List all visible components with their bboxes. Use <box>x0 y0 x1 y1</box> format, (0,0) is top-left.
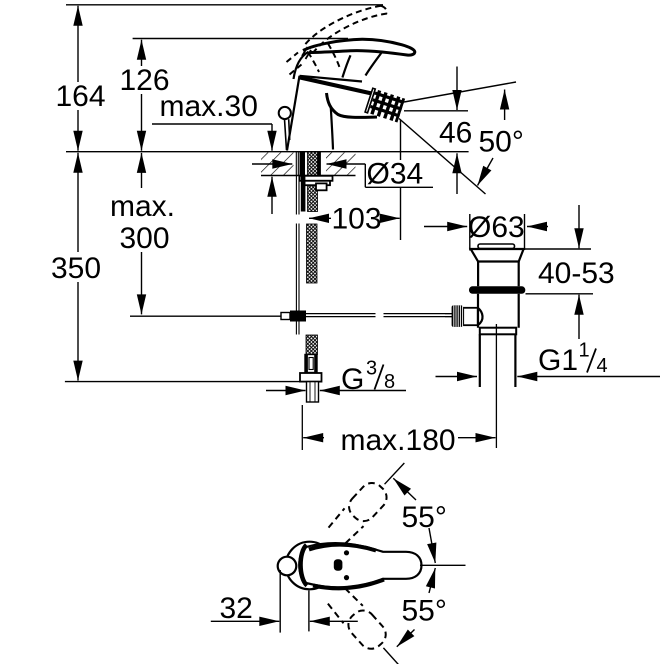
svg-text:4: 4 <box>597 355 608 377</box>
svg-text:max.30: max.30 <box>160 90 258 123</box>
svg-text:8: 8 <box>384 371 395 393</box>
dimension Ø63 <box>469 214 471 251</box>
hose end reference line <box>65 381 322 383</box>
max.300 bottom reference / pop-up rod line <box>130 315 281 317</box>
svg-text:Ø34: Ø34 <box>367 158 424 191</box>
flange <box>471 249 524 262</box>
G1 1/4 arrows <box>436 376 478 378</box>
dimension max.180 <box>303 437 324 439</box>
hose end fitting <box>305 355 317 373</box>
side port curve <box>478 308 483 325</box>
svg-text:164: 164 <box>56 80 106 113</box>
hose end: braid <box>306 335 318 355</box>
svg-text:55°: 55° <box>402 501 447 534</box>
lever logo <box>334 559 343 571</box>
faucet centreline lower <box>301 405 303 450</box>
reference line top (spout max height) <box>66 4 383 6</box>
svg-text:350: 350 <box>51 252 101 285</box>
lever neck left edge <box>342 55 350 77</box>
55deg lower leader arrows <box>397 630 415 647</box>
deck bottom line <box>261 175 356 177</box>
spout direction line lower <box>399 119 486 195</box>
spout direction line horizontal <box>404 110 468 112</box>
dimension 164 <box>77 6 79 82</box>
dimension max.30 <box>152 123 272 125</box>
tailpipe <box>480 334 516 387</box>
svg-text:Ø63: Ø63 <box>468 211 525 244</box>
faucet body side view <box>279 39 415 150</box>
top view: pop-up knob <box>278 557 297 576</box>
svg-text:46: 46 <box>439 117 472 150</box>
dimension 50deg <box>504 90 506 121</box>
lever dots <box>344 550 349 555</box>
aerator knurl <box>365 88 405 122</box>
svg-text:max.: max. <box>110 190 175 223</box>
reference line lever top <box>133 38 348 40</box>
dimension 350 <box>77 153 79 252</box>
cap joint thick band / spout top <box>300 78 379 96</box>
G3/8 arrows <box>266 390 306 392</box>
dimension 32 <box>279 570 281 633</box>
neck <box>478 262 519 287</box>
top view: dashed lever up position <box>327 454 415 545</box>
lever rear tail <box>294 52 309 79</box>
dimension max.300 <box>141 153 143 188</box>
55deg upper leader arrows <box>393 478 416 500</box>
lever bottom crescent <box>313 580 384 589</box>
tail flange <box>480 328 516 335</box>
mounting surface line <box>66 151 469 153</box>
pop-up rod horizontal <box>306 313 376 315</box>
dashed lever raised position <box>287 6 388 75</box>
mounting nut <box>300 176 333 190</box>
deck cross-section hatch left <box>261 153 294 176</box>
svg-text:103: 103 <box>332 203 382 236</box>
cap top thin edge <box>300 76 363 82</box>
top view: dashed lever down position <box>326 587 413 664</box>
pop-up knob <box>279 107 291 119</box>
dimension 46 <box>456 67 458 111</box>
top view: lever <box>299 543 421 587</box>
svg-text:300: 300 <box>120 222 170 255</box>
deck cross-section hatch right <box>326 153 356 176</box>
knurled knob <box>452 305 464 327</box>
faucet shank below deck <box>296 152 321 212</box>
svg-text:50°: 50° <box>479 126 524 159</box>
lever rear crescent <box>301 545 307 586</box>
spout direction line upper <box>404 82 516 102</box>
lever centreline <box>420 564 466 566</box>
top view: body circle <box>286 542 334 590</box>
svg-text:40-53: 40-53 <box>538 257 615 290</box>
lever neck right edge <box>366 52 383 76</box>
svg-text:1: 1 <box>579 340 590 362</box>
svg-text:32: 32 <box>220 592 253 625</box>
body right edge <box>331 108 333 150</box>
dimension 126 <box>141 40 143 66</box>
rod into knob <box>445 313 452 315</box>
hose nut G3/8 <box>300 373 322 382</box>
hose thin lines <box>296 176 299 335</box>
Ø34 leader and label <box>365 164 433 187</box>
solid lever <box>303 39 415 55</box>
port housing <box>463 308 478 325</box>
body below O-ring <box>478 294 519 328</box>
pop-up waste assembly <box>445 244 525 448</box>
dimension Ø34 arrows <box>252 163 292 165</box>
plug top <box>478 244 515 249</box>
O-ring <box>469 286 525 294</box>
spout underside and armpit <box>327 93 378 117</box>
hinge tick marks <box>302 47 311 59</box>
dimension 40-53 <box>525 248 591 250</box>
svg-text:max.180: max.180 <box>341 424 456 457</box>
body left edge <box>287 76 300 151</box>
lever top crescent <box>309 545 376 551</box>
svg-text:3: 3 <box>366 358 377 380</box>
supply hose braid lower <box>307 224 318 283</box>
svg-text:G1: G1 <box>538 344 578 377</box>
hose nipple <box>307 382 319 402</box>
drain centreline <box>495 324 497 448</box>
dimension 103 <box>400 120 402 240</box>
svg-text:55°: 55° <box>402 595 447 628</box>
rod coupler <box>281 313 290 320</box>
threaded stud <box>301 176 306 212</box>
